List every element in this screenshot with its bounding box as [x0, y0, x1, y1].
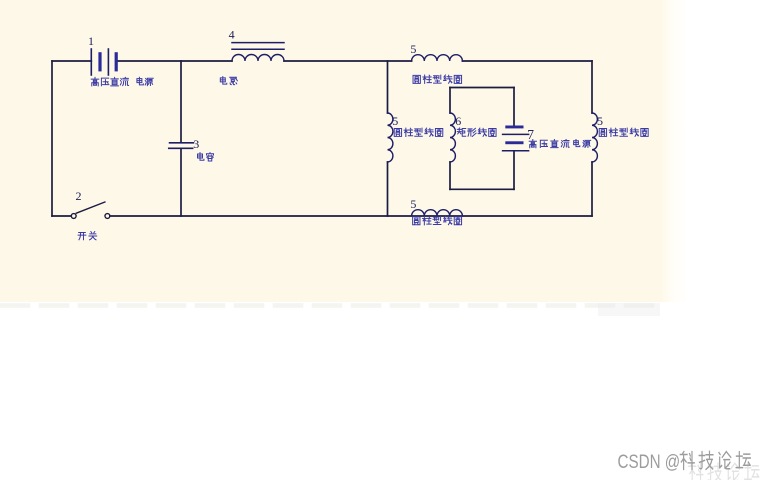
svg-text:5: 5: [410, 42, 416, 56]
svg-text:6: 6: [455, 114, 461, 128]
svg-text:1: 1: [88, 34, 94, 48]
svg-text:4: 4: [229, 28, 235, 42]
svg-text:5: 5: [410, 197, 416, 211]
svg-text:CSDN @: CSDN @: [618, 450, 681, 472]
svg-text:3: 3: [193, 137, 199, 151]
svg-text:5: 5: [597, 114, 603, 128]
svg-text:5: 5: [392, 114, 398, 128]
svg-text:2: 2: [76, 189, 82, 203]
